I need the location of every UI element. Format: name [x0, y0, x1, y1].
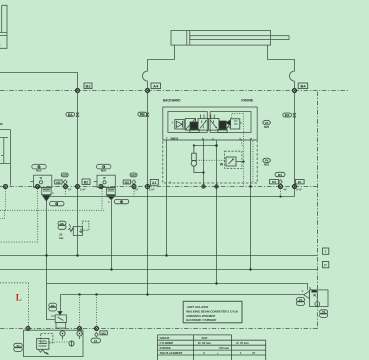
wire B-port: [203, 140, 205, 187]
svg-text:T2: T2: [55, 202, 59, 206]
counterbalance valve W dashed box: [225, 151, 242, 168]
bus node X2: [64, 185, 68, 189]
test point MX on riser B4: [283, 113, 296, 118]
check valve CV2: [226, 119, 242, 129]
cylinder CYL2 (partial, left edge): [0, 5, 7, 48]
svg-text:MX: MX: [278, 173, 283, 177]
pilot line X: [232, 113, 244, 118]
wire T-port: [166, 140, 168, 256]
hose loop B: [290, 71, 295, 81]
check valve CV1: [172, 120, 184, 129]
label MX2: [275, 172, 285, 177]
junction dot: [202, 171, 204, 173]
pilot drain manifold dotted: [0, 210, 105, 218]
bus node X10: [293, 185, 297, 189]
svg-text:WF: WF: [135, 190, 139, 192]
svg-text:M25: M25: [264, 125, 270, 129]
pilot dotted orifice to W: [196, 159, 226, 161]
label B4: [298, 83, 308, 89]
label BL: [295, 180, 304, 185]
check valve R assembly: [302, 287, 328, 307]
bus node X0: [4, 185, 8, 189]
pilot X dotted: [242, 140, 244, 147]
bottom bus node N2: [78, 327, 82, 331]
svg-text:M25: M25: [264, 163, 270, 167]
cylinder CYL1 piston rod: [190, 36, 289, 40]
svg-text:P6: P6: [265, 159, 269, 163]
wire PRV2 out: [111, 200, 113, 270]
wire neighbor down dotted: [5, 189, 7, 210]
wire cylinder A-port pipe: [148, 45, 175, 71]
wire A-port: [216, 140, 218, 284]
bottom bus node N3: [95, 327, 99, 331]
bus line LS: [47, 284, 308, 290]
node B4: [293, 89, 297, 93]
valve station dashed lower border: [163, 140, 257, 183]
label A3T-2: [130, 173, 137, 177]
svg-text:X: X: [239, 137, 241, 141]
relief manifold wire: [50, 196, 294, 198]
label T1/M25: [14, 343, 22, 351]
table spec: [158, 335, 266, 360]
svg-text:STROKE: STROKE: [160, 346, 171, 350]
neighbor station dashed border: [0, 210, 38, 242]
svg-text:T6: T6: [322, 310, 326, 314]
svg-text:M2: M2: [56, 180, 60, 184]
motor M: [69, 341, 74, 346]
bus node X3: [76, 185, 80, 189]
arrow RV: [44, 353, 49, 355]
riser A4-line: [147, 93, 149, 295]
bus line DR: [61, 294, 304, 296]
hose loop A: [143, 71, 148, 81]
bus node X8b: [249, 185, 251, 187]
label P5/M25: [58, 221, 66, 229]
svg-text:M2: M2: [102, 331, 106, 335]
svg-text:A4: A4: [153, 84, 159, 89]
pilot stub dotted: [280, 189, 282, 196]
test point MB on riser A4: [138, 112, 149, 117]
pump stems: [63, 336, 80, 339]
label A3T: [61, 173, 68, 177]
valve station border: [163, 107, 257, 140]
wire P3 to bus: [60, 327, 62, 329]
pump enclosure: [23, 330, 83, 356]
svg-text:BL: BL: [298, 180, 302, 184]
svg-text:M25: M25: [101, 169, 107, 173]
counterbalance valve W: [220, 157, 236, 166]
spool positions: [198, 119, 219, 131]
svg-text:A: A: [203, 351, 205, 355]
valve V2 sub-box forward: [210, 112, 251, 133]
relief valve RV: [37, 338, 49, 349]
svg-text:d= 70 mm: d= 70 mm: [236, 341, 249, 345]
pilot branch dotted: [243, 113, 245, 186]
svg-text:THE PLACEMENT: THE PLACEMENT: [160, 351, 183, 355]
gauge MP1: [263, 120, 271, 129]
valve PRV2 assembly: [94, 164, 116, 204]
drain risers dotted: [80, 295, 97, 327]
riser B4-line: [294, 93, 296, 197]
svg-text:W: W: [220, 162, 224, 166]
cylinder CYL1 body: [171, 31, 271, 46]
label T: [323, 248, 329, 254]
svg-text:A1: A1: [94, 339, 98, 343]
svg-text:BACKWARD / FORWARD: BACKWARD / FORWARD: [186, 318, 217, 322]
label B2: [84, 83, 92, 89]
wire W right: [236, 161, 244, 163]
main bus centerline: [0, 186, 318, 188]
wire A down to node: [147, 81, 149, 89]
junction dot: [279, 195, 281, 197]
svg-text:B WF: B WF: [149, 190, 155, 192]
label M3: [123, 180, 130, 184]
junction dots on buses: [45, 254, 251, 295]
svg-text:FORWARD: FORWARD: [241, 98, 253, 102]
label T2/M25: [50, 201, 65, 206]
valve P3 assembly: [49, 303, 67, 328]
svg-text:T2: T2: [120, 200, 124, 204]
label A4: [151, 83, 161, 89]
svg-text:B WF: B WF: [296, 190, 302, 192]
tiny WF texts: [68, 190, 303, 192]
centerline bus bottom: [0, 328, 318, 330]
bus line P: [0, 269, 318, 271]
gauge MP2: [263, 158, 271, 167]
svg-text:B WF: B WF: [80, 190, 86, 192]
svg-text:B2: B2: [84, 181, 89, 185]
svg-text:M25: M25: [36, 169, 42, 173]
label T2/M25-2: [114, 199, 129, 204]
label B2 at bus: [82, 179, 90, 185]
bus node X1: [36, 185, 40, 189]
bus node X7: [202, 185, 205, 188]
svg-text:T5: T5: [299, 298, 303, 302]
svg-text:2017: 2017: [202, 336, 208, 340]
note box: [183, 301, 242, 323]
label M2: [55, 180, 62, 184]
note text: [186, 305, 238, 322]
svg-text:A1: A1: [152, 181, 157, 185]
spring: [226, 126, 230, 128]
port labels: [166, 137, 252, 141]
svg-text:MB: MB: [140, 113, 146, 117]
label M4: [270, 180, 279, 185]
test point MA on riser: [66, 112, 79, 117]
spring RV: [39, 350, 45, 352]
svg-text:GROUP: GROUP: [160, 336, 170, 340]
svg-text:T1: T1: [16, 344, 20, 348]
label T6/M34: [320, 310, 328, 318]
relief valve P5 on riser: [68, 221, 89, 235]
pilot drains dotted: [38, 189, 134, 211]
svg-text:M4: M4: [272, 180, 276, 184]
svg-text:T3: T3: [102, 165, 106, 169]
svg-text:B2: B2: [85, 84, 91, 89]
svg-text:WF: WF: [68, 190, 72, 192]
dashed zone border: [0, 283, 29, 327]
bus node X8: [215, 185, 218, 188]
svg-text:B4: B4: [300, 84, 306, 89]
wire B down to node: [294, 81, 296, 89]
node A4: [146, 89, 150, 93]
svg-text:D= 90 mm: D= 90 mm: [198, 341, 211, 345]
valve PRV1 assembly: [30, 164, 54, 201]
station inner dotted drain: [252, 141, 254, 182]
label T5/M22: [297, 298, 305, 306]
drain point D1: [77, 331, 82, 336]
bottom bus node N1: [26, 327, 30, 331]
svg-text:WF: WF: [284, 190, 288, 192]
wire top-left header pipe: [0, 73, 78, 89]
wire cylinder B-port pipe: [268, 45, 295, 71]
svg-text:A: A: [212, 137, 214, 141]
shuttle S3: [279, 180, 283, 184]
table text: [160, 336, 256, 355]
svg-text:M3: M3: [125, 180, 129, 184]
svg-text:47: 47: [252, 351, 255, 355]
label A1: [150, 179, 158, 185]
bus line T: [0, 255, 318, 257]
shuttle S4: [95, 333, 99, 337]
bus node X9: [279, 185, 283, 189]
svg-text:CYLINDER: CYLINDER: [160, 341, 174, 345]
pump P: [60, 331, 65, 336]
svg-text:T3: T3: [37, 165, 41, 169]
pilot dotted RV: [49, 341, 69, 343]
label M2-b: [100, 331, 107, 335]
solenoid SOL-a: [185, 119, 195, 131]
svg-text:Y: Y: [170, 181, 172, 185]
svg-text:WM25: WM25: [171, 137, 179, 141]
neighbor valve body (cut at left edge): [0, 130, 10, 186]
valve V1 sub-box backward: [168, 112, 207, 133]
centerline boundary right: [317, 92, 319, 329]
svg-text:A3T: A3T: [131, 173, 137, 177]
node B2: [76, 89, 80, 93]
label P: [323, 262, 329, 268]
wire PRV1 out: [47, 201, 56, 319]
shuttle S1: [63, 180, 67, 184]
solenoid coil b (dark): [218, 121, 227, 133]
svg-text:370 mm: 370 mm: [219, 346, 230, 350]
svg-text:P5: P5: [265, 121, 269, 125]
svg-text:P3: P3: [51, 304, 55, 308]
orifice F1: [191, 146, 203, 173]
relief valve RV dashed box: [41, 334, 53, 343]
svg-text:A3T: A3T: [62, 173, 68, 177]
bus node X6: [146, 185, 150, 189]
svg-text:MA: MA: [68, 113, 74, 117]
centerline bus top: [0, 90, 350, 92]
svg-text:-200T A01-A001: -200T A01-A001: [186, 305, 208, 309]
text 25 bar: [59, 233, 64, 241]
branch wire B-A: [194, 145, 217, 147]
label A1: [91, 338, 101, 343]
svg-text:P: P: [324, 263, 327, 268]
bus node X5: [132, 185, 136, 189]
svg-text:L: L: [16, 292, 22, 302]
wire DR corner up: [60, 295, 62, 316]
shuttle S2: [132, 180, 136, 184]
svg-text:BACKWARD: BACKWARD: [163, 98, 181, 102]
riser A-line: [77, 93, 79, 256]
solenoid coil a (dark): [190, 122, 199, 133]
spool port stubs: [201, 115, 215, 119]
wire P-port: [250, 140, 252, 270]
bus node X4: [99, 185, 103, 189]
svg-text:P5: P5: [60, 222, 64, 226]
